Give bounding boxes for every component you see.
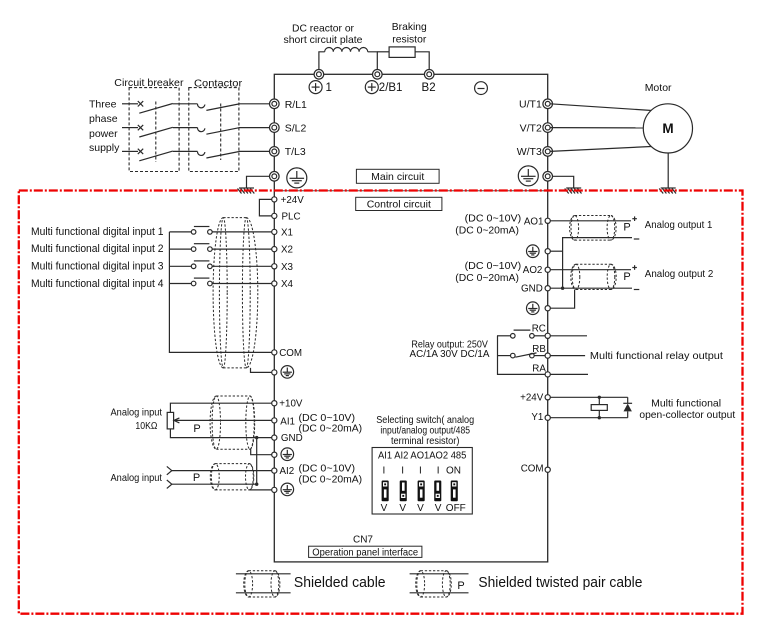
svg-text:(DC 0~20mA): (DC 0~20mA) — [455, 226, 519, 237]
symbol earth circle control 2 — [281, 448, 294, 461]
junction dot GND AO — [561, 287, 564, 290]
svg-text:I: I — [401, 465, 404, 476]
switch S3 wire left — [169, 265, 191, 267]
svg-text:X3: X3 — [281, 262, 294, 273]
breaker contact X phase T — [138, 149, 143, 154]
wire: braking resistor to B2 riser — [415, 52, 429, 75]
terminal Y1 — [531, 412, 550, 423]
switch S1 — [191, 227, 212, 235]
shielded cable digital inputs — [213, 218, 258, 368]
symbol earth circle right 2 — [527, 302, 540, 315]
svg-text:Multi functional: Multi functional — [651, 398, 721, 410]
wire AO1 minus return — [563, 238, 632, 288]
breaker blade phase S — [139, 127, 173, 137]
arrow input AI2 minus — [167, 480, 172, 488]
svg-text:supply: supply — [89, 142, 120, 154]
svg-text:(DC 0~10V): (DC 0~10V) — [299, 463, 356, 474]
terminal GND right — [521, 284, 550, 295]
svg-text:COM: COM — [521, 464, 544, 475]
plus sign AO1 — [632, 216, 637, 221]
shielded cable AO1 — [570, 216, 617, 241]
svg-text:RC: RC — [532, 324, 546, 335]
phase S wire in — [122, 127, 138, 129]
legend shielded cable symbol — [244, 571, 280, 597]
DIP switch AO1 — [418, 481, 425, 502]
wire branch to PE AO1 — [550, 250, 562, 252]
svg-text:V: V — [435, 503, 442, 514]
contactor linkage dashed — [220, 104, 222, 161]
circuit breaker QF dashed box — [129, 88, 179, 172]
breaker blade phase T — [139, 151, 173, 161]
symbol minus-circle — [475, 82, 488, 95]
load resistor open collector — [591, 397, 607, 417]
breaker linkage dashed — [155, 102, 157, 163]
svg-text:+10V: +10V — [279, 399, 303, 410]
svg-text:Multi functional digital input: Multi functional digital input 1 — [31, 226, 164, 238]
symbol earth circle right 1 — [527, 245, 540, 258]
relay contact RC — [497, 330, 545, 338]
earth ground hatch motor — [659, 188, 676, 194]
svg-text:Multi functional digital input: Multi functional digital input 2 — [31, 243, 164, 255]
svg-text:S/L2: S/L2 — [285, 122, 307, 134]
wire S1 to X1 — [212, 231, 272, 233]
terminal PE control 3 — [272, 487, 277, 492]
symbol plus-circle 1 — [309, 81, 322, 94]
svg-text:RB: RB — [532, 344, 546, 355]
svg-text:X2: X2 — [281, 245, 293, 256]
terminal PE control right 2 — [545, 306, 550, 311]
terminal T/L3 — [270, 146, 306, 158]
terminal (+)1 on top edge — [314, 70, 324, 80]
wire breaker to contactor phase R — [173, 103, 198, 105]
svg-text:(DC 0~10V): (DC 0~10V) — [465, 261, 522, 272]
wire RC stub — [550, 335, 587, 337]
svg-text:Analog input: Analog input — [111, 472, 163, 484]
svg-text:I: I — [437, 465, 440, 476]
wire breaker to contactor phase T — [173, 150, 198, 152]
terminal V/T2 — [520, 122, 553, 134]
arrow input AI2 plus — [167, 466, 172, 474]
svg-text:CN7: CN7 — [353, 534, 373, 545]
inductor L1 (DC reactor coil) — [325, 47, 368, 51]
svg-text:P: P — [193, 423, 200, 435]
terminal S/L2 — [270, 122, 307, 134]
svg-text:AC/1A 30V DC/1A: AC/1A 30V DC/1A — [410, 348, 490, 360]
svg-text:PLC: PLC — [282, 211, 301, 222]
terminal COM left — [272, 348, 302, 359]
svg-text:T/L3: T/L3 — [285, 146, 306, 158]
switch S3 — [191, 261, 212, 269]
svg-text:I: I — [383, 465, 386, 476]
wire S4 to X4 — [212, 283, 272, 285]
relay contact RB — [497, 353, 545, 358]
wire S2 to X2 — [212, 248, 272, 250]
terminal +24V right — [520, 393, 550, 404]
wire: reactor to B1 riser junction — [368, 52, 378, 75]
svg-text:AI1 AI2 AO1AO2 485: AI1 AI2 AO1AO2 485 — [378, 450, 467, 461]
svg-text:OFF: OFF — [446, 503, 466, 514]
switch S1 wire left — [169, 231, 191, 233]
wire shield AI2 cable to PE terminal — [249, 489, 271, 491]
svg-text:power: power — [89, 128, 118, 140]
symbol protective earth circle left — [287, 168, 307, 188]
terminal X2 — [272, 245, 293, 256]
wire contactor to S/L2 — [239, 127, 272, 129]
svg-text:terminal resistor): terminal resistor) — [391, 436, 459, 447]
svg-text:R/L1: R/L1 — [285, 99, 307, 111]
terminal +24V left — [272, 195, 305, 206]
terminal PE control 2 — [272, 452, 277, 457]
wire AI2 signal — [172, 470, 272, 472]
svg-text:V: V — [399, 503, 406, 514]
phase R wire in — [122, 103, 138, 105]
terminal RB — [532, 344, 550, 358]
DIP switch AI1 — [382, 481, 389, 502]
switch S4 — [191, 278, 212, 286]
jumper +24V to PLC — [259, 199, 272, 216]
svg-text:V/T2: V/T2 — [520, 122, 542, 134]
junction dot AI2 return — [255, 483, 258, 486]
symbol protective earth circle right — [518, 166, 538, 186]
terminal AI2 — [272, 466, 295, 477]
minus sign AO1 — [634, 238, 640, 240]
switch S4 wire left — [169, 283, 191, 285]
contactor blade phase T — [206, 152, 238, 158]
label box Control circuit — [356, 197, 442, 210]
wire contactor to T/L3 — [239, 150, 272, 152]
legend twisted pair wires — [410, 574, 469, 593]
wire shield AO2 to PE — [550, 290, 574, 309]
wire motor to earth — [667, 153, 669, 188]
earth ground hatch left — [238, 188, 255, 194]
svg-text:phase: phase — [89, 113, 118, 125]
terminal PE control 1 — [272, 370, 277, 375]
shielded cable analog input 2 — [210, 464, 253, 490]
svg-text:Shielded cable: Shielded cable — [294, 574, 386, 591]
wire GND junction down to AI2 return — [256, 438, 258, 485]
relay common bus — [498, 336, 546, 375]
svg-text:X1: X1 — [281, 227, 293, 238]
svg-text:GND: GND — [521, 284, 543, 295]
wire contactor to R/L1 — [239, 103, 272, 105]
wire: B1 junction to braking resistor — [377, 51, 389, 53]
svg-text:P: P — [623, 221, 630, 233]
shielded cable AO2 — [571, 264, 616, 289]
potentiometer RP1 — [167, 412, 173, 429]
svg-text:Main circuit: Main circuit — [371, 171, 424, 183]
wire S3 to X3 — [212, 265, 272, 267]
terminal X3 — [272, 262, 294, 273]
common bus digital inputs — [169, 232, 271, 353]
terminal PE control right 1 — [545, 249, 550, 254]
svg-text:+24V: +24V — [281, 195, 305, 206]
svg-text:M: M — [662, 121, 673, 136]
svg-text:COM: COM — [279, 348, 302, 359]
svg-text:V: V — [381, 503, 388, 514]
contactor KM dashed box — [189, 88, 239, 172]
svg-text:U/T1: U/T1 — [519, 99, 542, 111]
DIP switch AI2 — [400, 481, 407, 502]
svg-text:(DC 0~20mA): (DC 0~20mA) — [299, 474, 363, 485]
svg-text:Control circuit: Control circuit — [367, 199, 431, 211]
wire +10V to pot top — [170, 403, 277, 412]
resistor braking resistor — [389, 47, 415, 58]
motor M1 circle — [643, 104, 692, 153]
symbol plus-circle 2/B1 — [365, 81, 378, 94]
DIP I row — [383, 465, 461, 476]
svg-text:W/T3: W/T3 — [517, 146, 542, 158]
svg-text:2/B1: 2/B1 — [379, 82, 403, 94]
separator main/control inside box — [274, 190, 547, 192]
svg-text:Shielded twisted pair cable: Shielded twisted pair cable — [478, 574, 642, 591]
DIP switch box SW1 — [372, 448, 472, 515]
DIP V row — [381, 503, 466, 514]
svg-text:resistor: resistor — [392, 33, 426, 45]
terminal R/L1 — [270, 99, 308, 111]
wire RB stub — [550, 355, 585, 357]
wire +24V rail — [550, 396, 627, 398]
svg-text:I: I — [419, 465, 422, 476]
terminal PE right — [543, 172, 553, 182]
svg-text:Multi functional digital input: Multi functional digital input 3 — [31, 260, 164, 272]
contactor hook phase S — [197, 128, 204, 132]
svg-text:10KΩ: 10KΩ — [135, 420, 157, 432]
terminal AO2 — [523, 265, 551, 276]
svg-text:input/analog output/485: input/analog output/485 — [380, 425, 470, 436]
wire PE right to earth — [550, 176, 574, 188]
svg-text:AO1: AO1 — [524, 216, 544, 227]
svg-text:Three: Three — [89, 99, 117, 111]
wire V to motor — [550, 127, 643, 129]
diode D1 freewheel — [623, 397, 632, 417]
terminal AI1 — [272, 416, 295, 427]
wire AI2 return — [172, 483, 257, 485]
plus sign AO2 — [632, 265, 637, 270]
terminal U/T1 — [519, 99, 552, 111]
wire RA stub — [550, 373, 588, 375]
svg-text:1: 1 — [326, 82, 332, 94]
shielded cable analog input 1 — [210, 396, 255, 449]
svg-text:Analog output 2: Analog output 2 — [645, 268, 714, 280]
svg-text:short circuit plate: short circuit plate — [284, 34, 363, 46]
wire AO2 plus — [550, 269, 631, 271]
inverter main box U1 — [274, 74, 547, 562]
wire W to motor — [550, 147, 651, 152]
svg-text:Multi functional relay output: Multi functional relay output — [590, 350, 723, 362]
svg-text:Braking: Braking — [392, 21, 427, 33]
svg-text:X4: X4 — [281, 279, 294, 290]
wire AI1 wiper with arrow — [174, 418, 277, 423]
wire: DC reactor riser from terminal 1 — [319, 52, 325, 75]
svg-text:Analog output 1: Analog output 1 — [645, 219, 713, 231]
svg-text:AI1: AI1 — [280, 416, 295, 427]
breaker contact X phase R — [138, 101, 143, 106]
svg-text:AI2: AI2 — [280, 466, 295, 477]
terminal AO1 — [524, 216, 550, 227]
svg-text:B2: B2 — [422, 82, 436, 94]
svg-text:V: V — [417, 503, 424, 514]
junction dot +24V rail — [598, 396, 601, 399]
terminal +10V — [272, 399, 303, 410]
legend twisted pair cable symbol — [416, 571, 452, 597]
svg-text:RA: RA — [532, 363, 546, 374]
terminal COM right — [521, 464, 551, 475]
symbol earth circle control 1 — [281, 366, 294, 379]
symbol earth circle control 3 — [281, 483, 294, 496]
DIP switch 485 — [451, 481, 458, 502]
svg-text:+24V: +24V — [520, 393, 544, 404]
breaker contact X phase S — [138, 125, 143, 130]
svg-text:ON: ON — [446, 465, 461, 476]
contactor hook phase T — [197, 151, 204, 155]
svg-text:(DC 0~20mA): (DC 0~20mA) — [299, 424, 363, 435]
contactor hook phase R — [197, 104, 204, 108]
wire pot bottom to GND — [170, 429, 277, 438]
terminal (+)2/B1 on top edge — [373, 70, 383, 80]
svg-text:(DC 0~20mA): (DC 0~20mA) — [455, 273, 519, 284]
contactor blade phase R — [206, 104, 238, 110]
svg-text:AO2: AO2 — [523, 265, 543, 276]
breaker blade phase R — [139, 104, 173, 114]
earth ground hatch right — [565, 188, 582, 194]
svg-text:Operation panel interface: Operation panel interface — [312, 547, 418, 558]
label box Operation panel interface — [309, 546, 422, 558]
terminal W/T3 — [517, 146, 553, 158]
wire GND minus return AO2 — [550, 287, 632, 289]
wire cable shield to PE terminal — [251, 368, 272, 373]
DIP switch AO2 — [434, 481, 441, 502]
svg-text:Multi functional digital input: Multi functional digital input 4 — [31, 278, 164, 290]
svg-text:Selecting switch( analog: Selecting switch( analog — [376, 415, 474, 426]
wire AO1 plus — [550, 220, 631, 222]
svg-text:P: P — [193, 472, 200, 484]
svg-text:DC reactor or: DC reactor or — [292, 23, 354, 35]
wire shield AI1 cable to PE terminal — [251, 449, 272, 455]
terminal X4 — [272, 279, 294, 290]
terminal PE left — [270, 172, 280, 182]
svg-text:P: P — [623, 271, 630, 283]
terminal PLC — [272, 211, 301, 222]
control circuit red dash-dot border — [19, 191, 743, 614]
terminal B2 on top edge — [424, 70, 434, 80]
contactor blade phase S — [206, 128, 238, 134]
svg-text:Motor: Motor — [645, 82, 672, 94]
label box Main circuit — [356, 169, 439, 183]
wire U to motor — [550, 104, 652, 111]
legend shielded cable wires — [236, 574, 291, 593]
minus sign AO2 — [634, 289, 640, 291]
switch S2 — [191, 244, 212, 252]
junction dot Y1 rail — [598, 416, 601, 419]
svg-text:open-collector output: open-collector output — [639, 409, 735, 421]
junction dot GND wire — [255, 436, 258, 439]
wire Y1 rail — [550, 417, 627, 419]
switch S2 wire left — [169, 248, 191, 250]
svg-text:(DC 0~10V): (DC 0~10V) — [465, 214, 522, 225]
terminal GND left — [272, 433, 303, 444]
svg-text:P: P — [457, 580, 464, 592]
svg-text:Y1: Y1 — [531, 412, 543, 423]
svg-text:GND: GND — [281, 433, 303, 444]
wire breaker to contactor phase S — [173, 127, 198, 129]
wire PE left to earth — [247, 176, 272, 188]
terminal RA — [532, 363, 550, 377]
terminal X1 — [272, 227, 293, 238]
svg-text:Analog input: Analog input — [111, 406, 163, 418]
phase T wire in — [122, 150, 138, 152]
terminal RC — [532, 324, 551, 339]
